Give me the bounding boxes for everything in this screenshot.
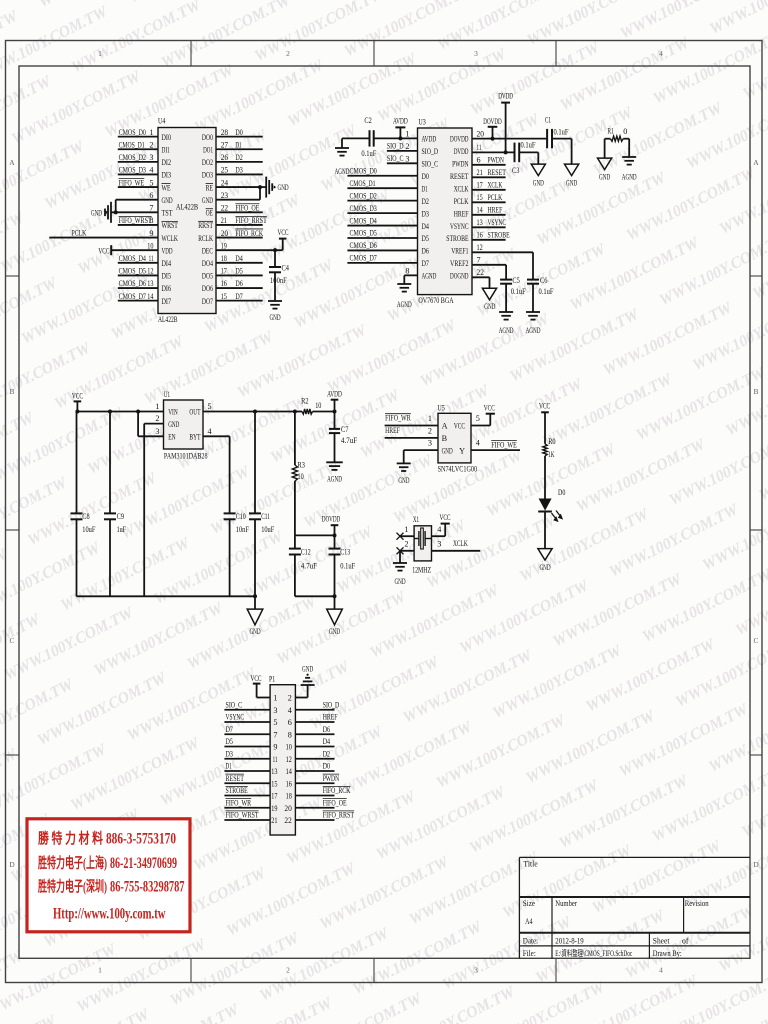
svg-text:2: 2 (286, 49, 290, 58)
svg-text:D2: D2 (235, 153, 242, 162)
wire P1 right pin 8 (295, 733, 334, 735)
svg-text:5: 5 (149, 178, 153, 187)
svg-text:WWW.100Y.COM.TW: WWW.100Y.COM.TW (2, 604, 138, 684)
svg-text:Title: Title (523, 859, 537, 869)
U4 chip body AL422B (158, 128, 216, 314)
svg-text:GND: GND (302, 665, 313, 674)
svg-text:Revision: Revision (685, 898, 710, 908)
svg-text:23: 23 (221, 191, 228, 200)
wire P1 right pin 16 (295, 782, 334, 784)
wire U5 pin3 GND (404, 449, 438, 451)
svg-text:3: 3 (437, 539, 441, 548)
wire U5 pin5 VCC (471, 425, 490, 427)
svg-text:AVDD: AVDD (327, 390, 342, 399)
wire U3 pin7 to C5 (472, 264, 506, 266)
svg-text:GND: GND (394, 577, 405, 586)
wire CMOS_D0 U3 (347, 175, 417, 177)
wire U4 pin 28 (216, 136, 263, 138)
svg-text:GND: GND (566, 179, 577, 188)
svg-text:VCC: VCC (484, 404, 495, 413)
svg-text:22: 22 (477, 268, 484, 277)
ground AGND right of R1 (622, 156, 636, 158)
svg-text:3: 3 (428, 439, 432, 448)
svg-text:PCLK: PCLK (488, 193, 503, 202)
svg-text:21: 21 (477, 168, 483, 177)
capacitor C8 (76, 412, 78, 514)
svg-text:WWW.100Y.COM.TW: WWW.100Y.COM.TW (118, 462, 254, 542)
svg-text:GND: GND (539, 563, 550, 572)
ground GND sideways U4 left (110, 202, 112, 223)
svg-text:VDD: VDD (162, 246, 173, 255)
svg-text:FIFO_RCK: FIFO_RCK (235, 229, 263, 238)
wire stub to GND triangle 2 (334, 596, 336, 609)
svg-text:HREF: HREF (488, 206, 503, 215)
svg-text:D1: D1 (235, 140, 241, 149)
svg-text:CMOS_D4: CMOS_D4 (350, 216, 377, 225)
svg-text:20: 20 (284, 804, 291, 813)
svg-text:4: 4 (659, 966, 663, 975)
svg-text:胜特力电子(深圳): 胜特力电子(深圳) (38, 878, 107, 896)
wire U4 pin 19 DEC (216, 249, 283, 251)
capacitor C13 (334, 535, 336, 548)
svg-text:File:: File: (523, 948, 536, 958)
svg-text:WWW.100Y.COM.TW: WWW.100Y.COM.TW (25, 469, 161, 549)
svg-text:1K: 1K (548, 450, 554, 459)
svg-text:WWW.100Y.COM.TW: WWW.100Y.COM.TW (208, 458, 344, 538)
svg-text:GND: GND (533, 179, 544, 188)
svg-text:WWW.100Y.COM.TW: WWW.100Y.COM.TW (340, 718, 476, 798)
svg-text:WWW.100Y.COM.TW: WWW.100Y.COM.TW (467, 776, 603, 856)
svg-text:C2: C2 (364, 116, 371, 125)
svg-text:4.7uF: 4.7uF (301, 561, 318, 570)
svg-text:VREF2: VREF2 (450, 259, 469, 268)
svg-text:U3: U3 (418, 118, 425, 127)
ground GND below U3 (482, 288, 496, 300)
svg-text:勝 特 力 材 料: 勝 特 力 材 料 (38, 830, 103, 848)
svg-text:PCLK: PCLK (454, 197, 469, 206)
border zone ticks left and right (6, 275, 20, 277)
svg-text:U1: U1 (164, 390, 170, 399)
junction U4 RE gnd (258, 185, 262, 189)
svg-text:0.1uF: 0.1uF (340, 561, 355, 570)
svg-text:4: 4 (476, 439, 480, 448)
svg-text:10uF: 10uF (82, 525, 95, 534)
svg-text:28: 28 (221, 128, 228, 137)
wire U3 VSYNC (472, 226, 506, 228)
svg-text:CMOS_D7: CMOS_D7 (350, 254, 377, 263)
svg-text:AGND: AGND (335, 167, 350, 176)
wire HREF to U5 pin2 (385, 437, 438, 439)
svg-text:DVDD: DVDD (454, 147, 469, 156)
svg-text:SIO_D: SIO_D (422, 147, 439, 156)
svg-text:WWW.100Y.COM.TW: WWW.100Y.COM.TW (274, 588, 410, 668)
svg-text:17: 17 (271, 792, 277, 801)
svg-text:22: 22 (221, 204, 228, 213)
svg-text:B: B (753, 387, 758, 396)
svg-text:0: 0 (623, 127, 627, 136)
wire X1 pin4 VCC (432, 535, 446, 537)
wire CMOS_D4 U3 (347, 225, 417, 227)
svg-text:RESET: RESET (450, 172, 469, 181)
svg-text:D1: D1 (422, 184, 428, 193)
svg-text:GND: GND (269, 313, 280, 322)
svg-text:AGND: AGND (327, 474, 342, 483)
ground GND below C4 (268, 300, 282, 302)
wire P1 left pin 3 (224, 709, 270, 711)
svg-text:FIFO_WR: FIFO_WR (226, 798, 252, 807)
svg-text:17: 17 (477, 181, 483, 190)
svg-text:WWW.100Y.COM.TW: WWW.100Y.COM.TW (490, 642, 626, 722)
svg-text:WCLK: WCLK (162, 234, 178, 243)
capacitor C11 (254, 412, 256, 514)
svg-text:D4: D4 (422, 222, 429, 231)
svg-text:DI1: DI1 (162, 145, 170, 154)
svg-text:Drawn By:: Drawn By: (653, 948, 682, 958)
svg-text:CMOS_D4: CMOS_D4 (119, 254, 146, 263)
ground AGND below U3 pin8 (397, 283, 411, 285)
ground GND below C1 rail (565, 164, 579, 176)
svg-text:CMOS_D6: CMOS_D6 (119, 279, 146, 288)
svg-text:4: 4 (149, 166, 153, 175)
svg-text:D4: D4 (235, 254, 242, 263)
svg-text:12: 12 (477, 243, 483, 252)
svg-text:C11: C11 (261, 512, 270, 521)
svg-text:VCC: VCC (250, 674, 261, 683)
svg-text:D5: D5 (235, 267, 242, 276)
svg-text:3: 3 (405, 154, 409, 163)
svg-text:3: 3 (474, 966, 478, 975)
svg-text:WWW.100Y.COM.TW: WWW.100Y.COM.TW (0, 137, 88, 217)
svg-text:WWW.100Y.COM.TW: WWW.100Y.COM.TW (607, 500, 743, 580)
svg-text:FIFO_WR: FIFO_WR (385, 414, 411, 423)
wire P1 left pin 13 (224, 770, 270, 772)
svg-text:DI0: DI0 (162, 133, 172, 142)
svg-text:DO3: DO3 (202, 171, 213, 180)
ground GND below U5 (397, 462, 411, 464)
svg-text:WRST: WRST (162, 221, 178, 230)
svg-text:PWDN: PWDN (452, 160, 468, 169)
svg-text:WWW.100Y.COM.TW: WWW.100Y.COM.TW (533, 907, 669, 987)
wire U4 pin 12 (118, 274, 158, 276)
wire R1 right to AGND (628, 139, 630, 157)
capacitor C6 (527, 279, 539, 281)
svg-text:WWW.100Y.COM.TW: WWW.100Y.COM.TW (0, 740, 110, 820)
wire U3 PCLK (472, 201, 506, 203)
svg-text:5: 5 (273, 718, 277, 727)
svg-text:19: 19 (271, 804, 277, 813)
wire U4 pin 5 (118, 186, 158, 188)
svg-text:SIO_C: SIO_C (387, 154, 404, 163)
wire SIO_D U3 pin2 (387, 150, 418, 152)
svg-text:FIFO_WRST: FIFO_WRST (119, 216, 152, 225)
svg-text:1: 1 (98, 966, 102, 975)
svg-text:FIFO_RRST: FIFO_RRST (235, 216, 266, 225)
svg-text:RCLK: RCLK (198, 234, 213, 243)
wire U4 pin 23 (216, 199, 260, 201)
wire P1 left pin 11 (224, 758, 270, 760)
svg-text:D5: D5 (226, 737, 233, 746)
svg-text:WWW.100Y.COM.TW: WWW.100Y.COM.TW (58, 534, 194, 614)
svg-text:10: 10 (286, 743, 292, 752)
svg-text:WWW.100Y.COM.TW: WWW.100Y.COM.TW (624, 164, 760, 244)
svg-text:WWW.100Y.COM.TW: WWW.100Y.COM.TW (434, 711, 570, 791)
svg-text:10uF: 10uF (261, 525, 274, 534)
svg-text:11: 11 (149, 254, 154, 263)
wire CMOS_D6 U3 (347, 249, 417, 251)
svg-text:8: 8 (405, 266, 409, 275)
svg-text:D1: D1 (226, 762, 232, 771)
svg-text:D7: D7 (235, 292, 242, 301)
svg-text:DI5: DI5 (162, 272, 172, 281)
wire U4 pin 26 (216, 161, 263, 163)
svg-text:XCLK: XCLK (453, 539, 468, 548)
svg-text:CMOS_D3: CMOS_D3 (119, 166, 146, 175)
LED D0 (539, 499, 552, 511)
wire U4 pin 16 (216, 287, 263, 289)
svg-text:GND: GND (484, 302, 495, 311)
svg-text:0.1uF: 0.1uF (554, 128, 569, 137)
svg-text:AVDD: AVDD (422, 135, 437, 144)
svg-text:WWW.100Y.COM.TW: WWW.100Y.COM.TW (142, 328, 278, 408)
wire P1 left pin 21 (224, 819, 270, 821)
wire U4 pin 22 (216, 211, 263, 213)
wire U4 pin 20 (216, 237, 263, 239)
svg-text:7: 7 (149, 204, 153, 213)
wire U3 pin12 to C6 (472, 251, 533, 253)
svg-text:13: 13 (477, 218, 483, 227)
wire U1 BYT to C10 (203, 435, 230, 437)
svg-text:10: 10 (298, 472, 304, 481)
svg-text:WWW.100Y.COM.TW: WWW.100Y.COM.TW (167, 929, 303, 1009)
svg-text:AL422B: AL422B (158, 315, 178, 324)
wire DVDD rail (472, 151, 515, 153)
svg-text:WWW.100Y.COM.TW: WWW.100Y.COM.TW (557, 34, 693, 114)
svg-text:RESET: RESET (226, 774, 245, 783)
capacitor C5 (500, 279, 512, 281)
svg-text:WWW.100Y.COM.TW: WWW.100Y.COM.TW (550, 570, 686, 650)
ground GND below rail (247, 609, 263, 625)
svg-text:AL422B: AL422B (176, 203, 199, 212)
svg-text:D6: D6 (235, 279, 242, 288)
svg-text:WWW.100Y.COM.TW: WWW.100Y.COM.TW (583, 635, 719, 715)
svg-text:OE: OE (206, 209, 213, 218)
svg-text:VCC: VCC (72, 391, 83, 400)
wire P1 left pin 9 (224, 746, 270, 748)
svg-text:4.7uF: 4.7uF (341, 436, 358, 445)
svg-text:WWW.100Y.COM.TW: WWW.100Y.COM.TW (667, 429, 768, 509)
svg-text:D7: D7 (226, 725, 233, 734)
svg-text:FIFO_RRST: FIFO_RRST (323, 811, 354, 820)
ground GND below C3 rail (531, 164, 545, 176)
svg-text:WWW.100Y.COM.TW: WWW.100Y.COM.TW (507, 305, 643, 385)
no-connect X on X1 pin1 (397, 533, 404, 540)
svg-text:VCC: VCC (439, 513, 450, 522)
svg-text:C12: C12 (301, 547, 311, 556)
junction EN tap (136, 410, 140, 414)
svg-text:1: 1 (273, 694, 277, 703)
svg-text:PAM3101DAB28: PAM3101DAB28 (164, 451, 208, 461)
capacitor C1 (546, 129, 548, 148)
svg-text:HREF: HREF (323, 713, 338, 722)
junction ground rail C13 (333, 594, 337, 598)
svg-text:GND: GND (168, 420, 179, 429)
svg-text:D5: D5 (422, 234, 429, 243)
ground AGND below C5 (499, 311, 513, 313)
wire P1 left pin 15 (224, 782, 270, 784)
svg-text:WWW.100Y.COM.TW: WWW.100Y.COM.TW (367, 581, 503, 661)
svg-text:1: 1 (98, 49, 102, 58)
wire U4 pin 8 (118, 224, 158, 226)
svg-text:WWW.100Y.COM.TW: WWW.100Y.COM.TW (707, 0, 768, 38)
wire U3 pin22 DOGND (472, 276, 490, 278)
wire U4 RE gnd stub (260, 186, 266, 188)
svg-text:VSYNC: VSYNC (488, 218, 507, 227)
svg-text:DOVDD: DOVDD (450, 135, 469, 144)
svg-text:D7: D7 (422, 259, 429, 268)
svg-text:16: 16 (286, 779, 292, 788)
svg-text:VCC: VCC (539, 402, 550, 411)
wire P1 right pin 22 (295, 819, 334, 821)
svg-text:D: D (9, 860, 15, 869)
svg-text:Number: Number (555, 898, 577, 908)
svg-text:1: 1 (405, 129, 409, 138)
svg-text:WWW.100Y.COM.TW: WWW.100Y.COM.TW (0, 539, 104, 619)
ground GND below DOVDD section (327, 609, 343, 625)
wire U4 pin 13 (118, 287, 158, 289)
svg-text:AGND: AGND (422, 272, 437, 281)
svg-text:WWW.100Y.COM.TW: WWW.100Y.COM.TW (375, 45, 511, 125)
svg-text:WWW.100Y.COM.TW: WWW.100Y.COM.TW (567, 234, 703, 314)
svg-text:8: 8 (288, 730, 292, 739)
svg-text:WWW.100Y.COM.TW: WWW.100Y.COM.TW (540, 370, 676, 450)
svg-text:OUT: OUT (189, 408, 200, 417)
svg-text:DO6: DO6 (202, 284, 213, 293)
svg-text:24: 24 (221, 178, 228, 187)
svg-text:Size: Size (523, 898, 535, 908)
wire P1 left pin 19 (224, 807, 270, 809)
wire U3 XCLK (472, 189, 506, 191)
svg-text:4: 4 (288, 706, 292, 715)
svg-text:A: A (9, 158, 15, 167)
svg-text:FIFO_WRST: FIFO_WRST (226, 811, 259, 820)
wire stub to GND triangle (254, 596, 256, 609)
wire U4 pin 7 (116, 211, 158, 213)
wire FIFO_WR to U5 pin1 (385, 425, 438, 427)
svg-text:WWW.100Y.COM.TW: WWW.100Y.COM.TW (573, 435, 709, 515)
svg-text:BYT: BYT (189, 433, 200, 442)
svg-text:R0: R0 (548, 437, 555, 446)
svg-text:2: 2 (404, 539, 408, 548)
svg-text:WWW.100Y.COM.TW: WWW.100Y.COM.TW (407, 848, 543, 928)
wire VCC rail to U1 VIN (77, 411, 164, 413)
wire P1 right pin 20 (295, 807, 334, 809)
svg-text:13: 13 (147, 279, 153, 288)
svg-text:WWW.100Y.COM.TW: WWW.100Y.COM.TW (600, 299, 736, 379)
svg-text:VREF1: VREF1 (451, 247, 468, 256)
svg-text:6: 6 (477, 156, 481, 165)
ground AGND left of C2 (341, 138, 343, 147)
wire PCLK to U4 pin 9 (49, 237, 158, 239)
wire U3 pin8 AGND (404, 274, 417, 276)
svg-text:U4: U4 (158, 117, 165, 126)
svg-text:U5: U5 (437, 404, 444, 413)
wire U4 pin 27 (216, 148, 263, 150)
svg-text:D2: D2 (323, 749, 330, 758)
wire U4 pin6-pin7 tie (115, 200, 117, 213)
wire P1 left pin 7 (224, 733, 270, 735)
svg-text:RESET: RESET (488, 168, 507, 177)
svg-text:FIFO_WE: FIFO_WE (491, 440, 517, 449)
svg-text:GND: GND (329, 627, 340, 636)
svg-text:C7: C7 (341, 425, 348, 434)
svg-text:VSYNC: VSYNC (450, 222, 469, 231)
svg-text:Y: Y (459, 446, 465, 455)
wire U4 pin 14 (118, 300, 158, 302)
svg-text:10nF: 10nF (236, 525, 249, 534)
svg-text:FIFO_OE: FIFO_OE (323, 798, 347, 807)
svg-text:15: 15 (221, 292, 227, 301)
wire U4 pin 4 (118, 173, 158, 175)
svg-text:WWW.100Y.COM.TW: WWW.100Y.COM.TW (257, 924, 393, 1004)
svg-text:WWW.100Y.COM.TW: WWW.100Y.COM.TW (616, 700, 752, 780)
svg-text:C6: C6 (540, 276, 547, 285)
svg-text:A4: A4 (525, 916, 533, 926)
svg-text:19: 19 (221, 241, 227, 250)
svg-text:DO1: DO1 (203, 145, 213, 154)
svg-text:WWW.100Y.COM.TW: WWW.100Y.COM.TW (468, 39, 604, 119)
svg-text:CMOS_D6: CMOS_D6 (350, 241, 377, 250)
border zone ticks top and bottom (190, 41, 192, 67)
svg-text:27: 27 (221, 140, 228, 149)
svg-text:17: 17 (221, 267, 227, 276)
svg-text:GND: GND (249, 627, 260, 636)
wire U3 STROBE (472, 239, 506, 241)
P1 connector body (270, 685, 295, 835)
wire VCC to P1 pin1 (257, 697, 271, 699)
svg-text:1: 1 (155, 402, 159, 411)
svg-text:AGND: AGND (622, 173, 637, 182)
svg-text:16: 16 (221, 279, 227, 288)
wire U4 pin 1 (118, 136, 158, 138)
svg-text:D2: D2 (422, 197, 429, 206)
wire U4 pin 2 (118, 148, 158, 150)
svg-text:D4: D4 (323, 737, 330, 746)
wire CMOS_D5 U3 (347, 237, 417, 239)
wire P1 right pin 4 (295, 709, 334, 711)
svg-text:DI6: DI6 (162, 284, 172, 293)
junction DOVDD rail (333, 533, 337, 537)
svg-text:WWW.100Y.COM.TW: WWW.100Y.COM.TW (623, 902, 759, 982)
svg-text:SIO_D: SIO_D (387, 142, 404, 151)
svg-text:WWW.100Y.COM.TW: WWW.100Y.COM.TW (0, 1012, 60, 1024)
svg-text:20: 20 (221, 229, 228, 238)
svg-text:TST: TST (162, 209, 173, 218)
no-connect X on X1 pin2 (397, 547, 404, 554)
svg-text:C: C (753, 636, 758, 645)
svg-text:VSYNC: VSYNC (226, 713, 245, 722)
svg-text:D6: D6 (323, 725, 330, 734)
wire ground rail U1 section (77, 595, 256, 597)
wire U5 pin4 FIFO_WE (471, 449, 520, 451)
ground GND below X1 (393, 562, 407, 564)
svg-text:21: 21 (221, 216, 227, 225)
svg-text:WWW.100Y.COM.TW: WWW.100Y.COM.TW (317, 853, 453, 933)
ground GND below LED (538, 549, 552, 561)
wire P1 right pin 18 (295, 795, 334, 797)
svg-text:SIO_D: SIO_D (323, 700, 340, 709)
wire U1 EN tie to VIN (138, 435, 163, 437)
svg-text:EN: EN (168, 433, 175, 442)
